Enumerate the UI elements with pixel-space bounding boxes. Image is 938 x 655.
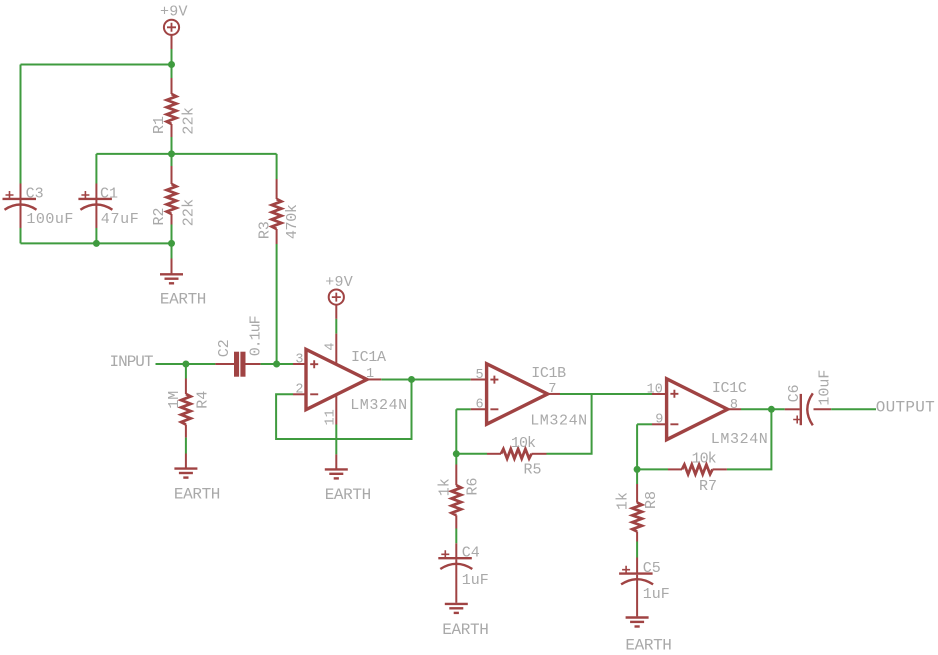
svg-text:0.1uF: 0.1uF (247, 315, 264, 356)
svg-text:+9V: +9V (325, 274, 353, 291)
node input junction (182, 361, 189, 368)
svg-text:R6: R6 (465, 477, 482, 495)
svg-text:C4: C4 (462, 545, 480, 562)
wire C6 to OUTPUT (831, 408, 876, 410)
svg-text:8: 8 (730, 398, 738, 413)
svg-text:INPUT: INPUT (110, 353, 154, 371)
resistor R1 22k (151, 78, 197, 137)
svg-text:5: 5 (475, 368, 483, 383)
op-amp IC1A (293, 334, 407, 426)
capacitor C6 10uF (785, 370, 834, 426)
svg-text:EARTH: EARTH (174, 485, 221, 503)
svg-text:2: 2 (295, 383, 303, 398)
svg-text:9: 9 (655, 412, 663, 427)
svg-text:1k: 1k (436, 478, 453, 496)
svg-text:C1: C1 (100, 185, 118, 202)
svg-text:C3: C3 (26, 185, 44, 202)
wire ground node down (171, 243, 173, 258)
capacitor C2 0.1uF (215, 315, 264, 376)
svg-text:3: 3 (295, 352, 303, 367)
svg-text:47uF: 47uF (101, 211, 139, 228)
capacitor C3 100uF (3, 184, 74, 229)
svg-text:OUTPUT: OUTPUT (876, 398, 935, 416)
node junction at +9V rail (168, 61, 175, 68)
svg-text:LM324N: LM324N (530, 413, 587, 430)
svg-text:7: 7 (548, 382, 556, 397)
op-amp IC1C (647, 379, 768, 448)
wire C3 bottom (20, 228, 22, 243)
wire divider horizontal (96, 153, 276, 155)
svg-text:R3: R3 (256, 221, 273, 239)
svg-text:LM324N: LM324N (711, 431, 768, 448)
resistor R8 1k (615, 484, 660, 542)
svg-text:EARTH: EARTH (160, 291, 207, 309)
svg-text:1: 1 (366, 367, 374, 382)
wire C2 to pin3 node (261, 363, 293, 365)
svg-text:EARTH: EARTH (625, 637, 672, 655)
ground EARTH under R4 (174, 454, 221, 504)
wire R2 to ground node (171, 225, 173, 244)
svg-text:+9V: +9V (160, 4, 188, 21)
wire input (156, 363, 216, 365)
node R7 junction (634, 466, 641, 473)
svg-text:100uF: 100uF (26, 211, 73, 228)
resistor R2 22k (151, 166, 197, 226)
svg-text:R5: R5 (524, 462, 542, 479)
wire IC1B output (560, 393, 652, 395)
wire bottom-left horizontal (21, 242, 172, 244)
svg-text:10k: 10k (511, 435, 536, 452)
svg-text:11: 11 (324, 409, 339, 425)
svg-text:4: 4 (323, 342, 338, 350)
svg-text:470k: 470k (284, 204, 301, 239)
power +9V supply at IC1A (325, 274, 353, 319)
resistor R7 10k (668, 451, 727, 495)
svg-text:10uF: 10uF (816, 370, 833, 406)
wire IC1A feedback (276, 379, 411, 439)
svg-text:EARTH: EARTH (325, 486, 372, 504)
wire IC1B feedback vertical (547, 394, 592, 454)
node divider junction (168, 150, 175, 157)
wire node to R8 (636, 469, 638, 484)
capacitor C5 1uF (619, 558, 670, 617)
node C1 bottom junction (93, 240, 100, 247)
wire C3 top vertical (20, 65, 22, 184)
resistor R4 1M (166, 379, 212, 438)
node ground junction (168, 240, 175, 247)
svg-text:1uF: 1uF (462, 572, 489, 589)
ground EARTH under C4 (442, 604, 489, 639)
svg-text:IC1A: IC1A (351, 349, 386, 366)
wire node to R6 (455, 454, 457, 465)
ground EARTH under R2 (160, 259, 207, 309)
wire supply to pin4 (335, 319, 337, 334)
wire R8 to C5 (636, 542, 638, 558)
svg-text:6: 6 (475, 398, 483, 413)
svg-text:IC1C: IC1C (712, 380, 747, 397)
capacitor C1 47uF (78, 184, 138, 229)
ground EARTH under C5 (625, 618, 672, 655)
svg-text:R1: R1 (151, 116, 168, 134)
wire pin6 down to R5 node (455, 409, 457, 454)
svg-text:10k: 10k (692, 451, 717, 468)
svg-text:22k: 22k (180, 107, 197, 135)
wire R6 to C4 (455, 529, 457, 544)
svg-text:C2: C2 (216, 339, 233, 357)
wire input node to R4 (185, 364, 187, 379)
svg-text:22k: 22k (180, 199, 197, 227)
svg-text:10: 10 (647, 383, 663, 398)
wire IC1C feedback vertical (727, 409, 772, 469)
wire pin9 (637, 423, 652, 425)
wire C1 top vertical (95, 154, 97, 184)
svg-text:1uF: 1uF (643, 586, 670, 603)
wire R3 bottom to input node (276, 244, 278, 364)
svg-text:EARTH: EARTH (442, 621, 489, 639)
wire pin9 down to R7 node (636, 424, 638, 469)
svg-text:LM324N: LM324N (350, 397, 407, 414)
wire C1 bottom (95, 228, 97, 243)
svg-text:R7: R7 (699, 478, 717, 495)
resistor R5 10k (487, 435, 547, 478)
svg-text:R4: R4 (195, 391, 212, 409)
svg-text:1M: 1M (166, 391, 183, 409)
wire R4 to ground (185, 438, 187, 454)
wire R3 top (276, 154, 278, 179)
node pin3 junction (273, 361, 280, 368)
node output1 junction (408, 376, 415, 383)
capacitor C4 1uF (438, 543, 488, 603)
ground EARTH under pin 11 (325, 454, 372, 503)
wire R7 node left (637, 468, 668, 470)
op-amp IC1B (471, 364, 588, 430)
node R5 junction (453, 450, 460, 457)
resistor R6 1k (436, 465, 481, 529)
svg-text:IC1B: IC1B (531, 365, 566, 382)
svg-text:R8: R8 (643, 491, 660, 509)
wire R1 to divider node (171, 137, 173, 166)
node output3 junction (768, 406, 775, 413)
resistor R3 470k (256, 179, 301, 244)
wire +9V to R1 node (171, 49, 173, 65)
wire R1 node down (171, 65, 173, 79)
wire IC1A output (381, 378, 470, 380)
svg-text:C5: C5 (643, 560, 661, 577)
wire pin6 (456, 408, 470, 410)
wire pin11 to ground (335, 425, 337, 455)
svg-text:1k: 1k (615, 492, 632, 510)
wire top-left horizontal (21, 64, 172, 66)
wire R5 node left (456, 453, 487, 455)
wire IC1C output (741, 408, 785, 410)
svg-text:R2: R2 (151, 207, 168, 225)
power +9V supply top (160, 4, 188, 49)
svg-text:C6: C6 (786, 384, 803, 402)
